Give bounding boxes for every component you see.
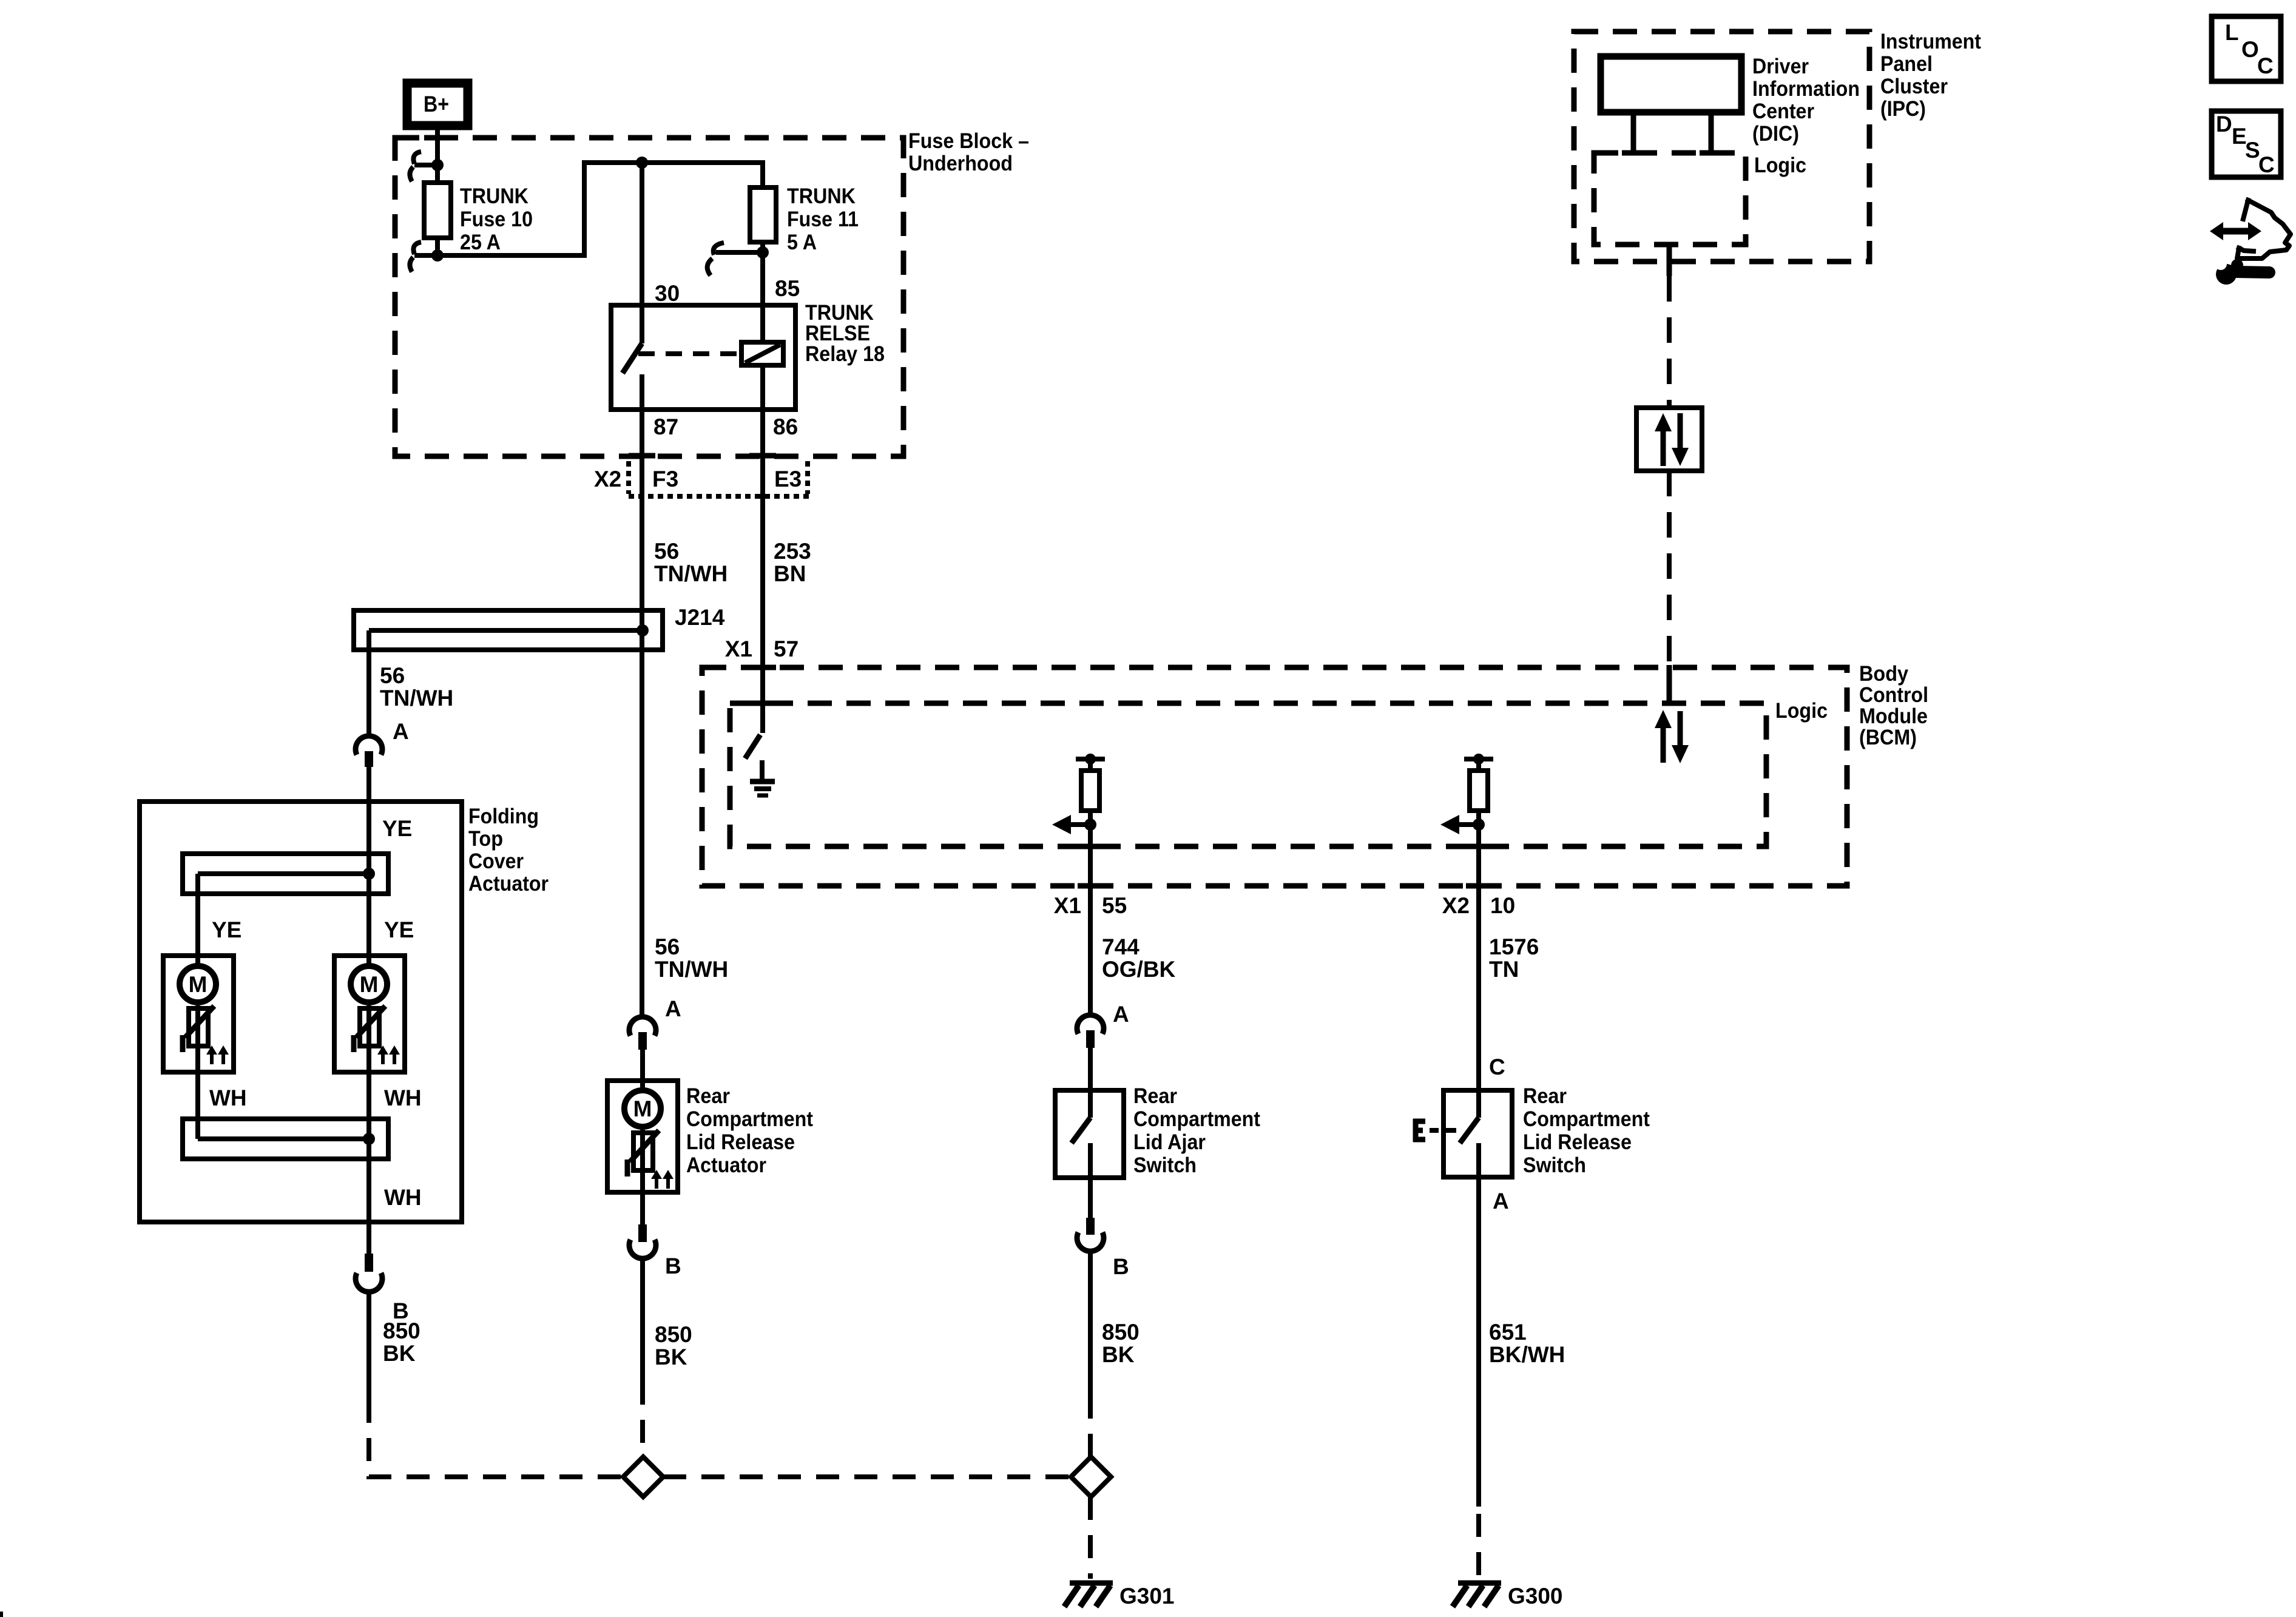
relay TRUNK RELSE Relay 18 box	[611, 305, 795, 410]
svg-text:WH: WH	[384, 1185, 422, 1210]
svg-text:(BCM): (BCM)	[1859, 726, 1917, 749]
tick crossings at fuse block bottom	[629, 453, 655, 459]
svg-text:B: B	[665, 1254, 681, 1278]
label Instrument Panel Cluster (IPC)	[1880, 30, 1981, 121]
junction node on top splice bar	[363, 868, 375, 880]
wire label 253 BN	[774, 539, 811, 586]
relay name label	[805, 301, 885, 366]
svg-text:X2: X2	[594, 467, 621, 491]
wire right branch to motor 2	[366, 874, 371, 965]
svg-text:Driver: Driver	[1752, 55, 1809, 78]
Driver Information Center display box	[1601, 56, 1741, 112]
motor 1 box	[163, 956, 234, 1072]
label Body Control Module (BCM)	[1859, 662, 1928, 749]
svg-text:D: D	[2216, 112, 2232, 137]
svg-text:TN/WH: TN/WH	[654, 561, 728, 586]
battery feed symbol B+	[407, 83, 468, 126]
relay actuation dashed link	[638, 351, 741, 356]
label Rear Compartment Lid Release Switch	[1523, 1084, 1650, 1177]
svg-text:Fuse 10: Fuse 10	[460, 208, 533, 231]
svg-text:5 A: 5 A	[787, 231, 817, 254]
wire relay 86 down to BCM	[760, 365, 765, 733]
Folding Top Cover Actuator box	[140, 802, 462, 1222]
inline connector A of folding top actuator	[356, 736, 382, 767]
serial data gateway box	[1636, 408, 1702, 471]
svg-text:A: A	[665, 996, 681, 1021]
junction node at fuse 10 input	[431, 159, 444, 171]
svg-text:Top: Top	[468, 827, 503, 851]
svg-text:TN: TN	[1489, 957, 1519, 982]
svg-text:X1: X1	[1054, 893, 1081, 918]
svg-text:Switch: Switch	[1133, 1153, 1197, 1177]
svg-text:Logic: Logic	[1775, 699, 1828, 723]
svg-text:TRUNK: TRUNK	[787, 184, 856, 208]
tick where B+ wire crosses fuse block edge	[424, 135, 451, 141]
inline connector B of folding top actuator	[356, 1254, 382, 1292]
wire B+ to Fuse 10	[435, 130, 440, 183]
BCM Logic dashed box	[730, 703, 1766, 846]
svg-text:Module: Module	[1859, 704, 1928, 728]
connector clip (fuse 11 output)	[707, 243, 763, 275]
motor 2 box	[334, 956, 405, 1072]
inline connector B of lid ajar switch	[1077, 1218, 1104, 1251]
svg-text:Body: Body	[1859, 662, 1908, 686]
BCM serial data arrows	[1655, 710, 1689, 763]
BCM input arrow (lid ajar)	[1052, 815, 1089, 834]
svg-text:A: A	[393, 719, 409, 744]
wire label 56 TN/WH (actuator feed)	[655, 934, 728, 982]
fuse TRUNK Fuse 11 5 A	[750, 187, 776, 242]
Rear Compartment Lid Ajar Switch box	[1055, 1090, 1124, 1178]
svg-text:F3: F3	[652, 467, 678, 491]
internal splice bar (bottom)	[183, 1119, 388, 1159]
svg-text:WH: WH	[384, 1085, 422, 1110]
wire fuse 10 output to bus (up and over)	[437, 163, 763, 255]
svg-text:WH: WH	[209, 1085, 247, 1110]
wire label 56 TN/WH (relay output)	[654, 539, 728, 586]
inline connector A of release actuator	[629, 1017, 656, 1050]
svg-text:Information: Information	[1752, 77, 1860, 101]
svg-text:B+: B+	[424, 92, 449, 116]
motor 2 M symbol	[351, 966, 387, 1002]
svg-text:850: 850	[655, 1322, 692, 1347]
junction node at fuse 10 output	[431, 249, 444, 262]
dashed ground wire from lid ajar switch	[1088, 1396, 1093, 1457]
wire label 651 BK/WH	[1489, 1320, 1565, 1367]
gateway arrows	[1655, 413, 1689, 466]
internal splice bar (top)	[183, 854, 388, 894]
svg-text:Folding: Folding	[468, 805, 539, 828]
svg-text:(DIC): (DIC)	[1752, 122, 1799, 146]
relay coil	[741, 342, 783, 365]
svg-text:BK: BK	[655, 1345, 687, 1369]
svg-text:BK: BK	[1102, 1342, 1135, 1367]
junction node feeding relay pin 30	[636, 157, 648, 169]
BCM internal driver switch to ground	[745, 735, 775, 795]
wire relay 87 down to actuator	[640, 410, 644, 1019]
svg-text:E: E	[2232, 124, 2247, 149]
inline connector B of release actuator	[629, 1224, 656, 1258]
harness routing icon	[2210, 200, 2291, 258]
description icon DESC	[2212, 111, 2281, 177]
dashed ground wire from folding top	[369, 1400, 623, 1477]
release actuator arrows	[651, 1170, 674, 1189]
wire 850 BK from lid ajar switch	[1088, 1249, 1093, 1396]
svg-text:Compartment: Compartment	[686, 1107, 813, 1131]
svg-text:G300: G300	[1508, 1584, 1563, 1609]
svg-text:850: 850	[383, 1318, 420, 1343]
wire node to relay pin 30	[640, 163, 644, 305]
svg-text:Lid Release: Lid Release	[686, 1130, 795, 1154]
junction node on bottom splice bar	[363, 1133, 375, 1145]
Body Control Module dashed box	[702, 667, 1847, 886]
label X1 55	[1054, 893, 1127, 918]
junction node at lid ajar input	[1084, 819, 1096, 831]
svg-text:G301: G301	[1119, 1584, 1175, 1609]
svg-text:TRUNK: TRUNK	[460, 184, 528, 208]
svg-text:BK/WH: BK/WH	[1489, 1342, 1565, 1367]
svg-text:M: M	[633, 1096, 652, 1121]
svg-text:850: 850	[1102, 1320, 1140, 1345]
junction node J214	[636, 624, 649, 636]
svg-text:Underhood: Underhood	[908, 152, 1013, 175]
svg-text:X1: X1	[725, 636, 752, 661]
svg-text:J214: J214	[675, 605, 725, 630]
svg-text:Lid Ajar: Lid Ajar	[1133, 1130, 1206, 1154]
svg-text:10: 10	[1490, 893, 1515, 918]
release actuator M symbol	[624, 1090, 661, 1127]
wire label 56 TN/WH (left branch)	[380, 663, 453, 711]
svg-text:Instrument: Instrument	[1880, 30, 1981, 53]
connector clip upper (fuse 10 input)	[410, 152, 437, 181]
label Rear Compartment Lid Release Actuator	[686, 1084, 813, 1177]
relay switch contact	[623, 305, 642, 410]
wire label 850 BK (middle)	[655, 1322, 692, 1369]
Rear Compartment Lid Release Actuator box	[607, 1081, 678, 1192]
dashed ground wire from release actuator	[640, 1382, 645, 1457]
wire 850 BK from release actuator	[640, 1257, 645, 1382]
lid ajar switch contact	[1072, 1118, 1090, 1218]
svg-text:(IPC): (IPC)	[1880, 97, 1926, 121]
wire out of folding top actuator	[366, 1139, 371, 1254]
serial data wire gateway to BCM	[1667, 471, 1672, 704]
wire label 850 BK (right)	[1102, 1320, 1140, 1367]
BCM pull-up resistor (lid ajar input)	[1076, 754, 1105, 825]
svg-text:56: 56	[380, 663, 405, 688]
svg-text:1576: 1576	[1489, 934, 1539, 959]
svg-text:87: 87	[653, 414, 678, 439]
Rear Compartment Lid Release Switch box	[1443, 1090, 1512, 1177]
svg-text:Cover: Cover	[468, 849, 524, 873]
motor 1 M symbol	[180, 966, 216, 1002]
svg-text:YE: YE	[212, 917, 241, 942]
wire into lid ajar switch	[1088, 1048, 1093, 1118]
wire fuse 10 output	[435, 238, 440, 255]
svg-text:YE: YE	[384, 917, 414, 942]
svg-text:30: 30	[655, 281, 680, 306]
label Rear Compartment Lid Ajar Switch	[1133, 1084, 1260, 1177]
svg-text:86: 86	[773, 414, 798, 439]
wire into folding top actuator	[366, 767, 371, 874]
motor 2 thermal protector	[354, 1005, 385, 1139]
DIC connection legs	[1622, 112, 1723, 153]
svg-text:Relay 18: Relay 18	[805, 342, 885, 366]
BCM input arrow (release switch)	[1440, 815, 1477, 834]
wire 850 BK from folding top	[366, 1290, 371, 1400]
wire into release actuator	[640, 1050, 645, 1089]
splice diamond (left)	[623, 1457, 663, 1497]
IPC Logic dashed box	[1594, 153, 1746, 245]
svg-text:Fuse Block –: Fuse Block –	[908, 129, 1029, 153]
wire release switch input down	[1476, 825, 1481, 1118]
svg-text:744: 744	[1102, 934, 1140, 959]
Instrument Panel Cluster dashed box	[1574, 32, 1869, 262]
dashed ground bus to right diamond	[663, 1474, 1070, 1479]
svg-text:M: M	[360, 972, 379, 997]
svg-text:25 A: 25 A	[460, 231, 501, 254]
svg-text:Switch: Switch	[1523, 1153, 1586, 1177]
svg-text:55: 55	[1102, 893, 1127, 918]
svg-text:C: C	[1489, 1055, 1505, 1079]
label Folding Top Cover Actuator	[468, 805, 549, 896]
svg-text:OG/BK: OG/BK	[1102, 957, 1176, 982]
ground symbol G300	[1453, 1583, 1501, 1607]
svg-text:Cluster: Cluster	[1880, 75, 1948, 98]
wrench icon	[2215, 258, 2269, 285]
svg-text:E3: E3	[774, 467, 802, 491]
motor 2 arrows	[377, 1045, 400, 1064]
svg-text:Compartment: Compartment	[1133, 1107, 1260, 1131]
Fuse Block - Underhood dashed box	[395, 138, 903, 456]
fuse TRUNK Fuse 10 25 A	[424, 183, 451, 238]
motor 1 thermal protector	[183, 1005, 214, 1139]
svg-text:X2: X2	[1442, 893, 1470, 918]
svg-text:Rear: Rear	[1523, 1084, 1567, 1108]
dashed wire diamond to ground G301	[1088, 1497, 1093, 1579]
svg-text:56: 56	[654, 539, 679, 564]
svg-text:M: M	[189, 972, 208, 997]
junction node at release switch input	[1473, 819, 1485, 831]
release switch contact	[1460, 1118, 1479, 1507]
label Driver Information Center (DIC)	[1752, 55, 1860, 146]
ground symbol G301	[1064, 1583, 1113, 1607]
svg-text:Actuator: Actuator	[686, 1153, 766, 1177]
Fuse Block label	[908, 129, 1029, 175]
svg-text:85: 85	[775, 276, 800, 301]
svg-text:BK: BK	[383, 1341, 416, 1366]
svg-text:BN: BN	[774, 561, 806, 586]
BCM pull-up resistor (release switch input)	[1464, 754, 1493, 825]
svg-text:Center: Center	[1752, 100, 1814, 123]
wire label 1576 TN	[1489, 934, 1539, 982]
svg-text:56: 56	[655, 934, 680, 959]
svg-text:Actuator: Actuator	[468, 872, 549, 896]
svg-text:C: C	[2258, 152, 2275, 177]
svg-text:TN/WH: TN/WH	[380, 686, 453, 711]
svg-text:253: 253	[774, 539, 811, 564]
svg-text:Control: Control	[1859, 683, 1928, 707]
svg-text:Logic: Logic	[1754, 154, 1806, 177]
tick crossings at BCM edges (X2-10)	[1466, 844, 1493, 849]
location icon LOC	[2212, 16, 2281, 81]
svg-text:Rear: Rear	[686, 1084, 730, 1108]
svg-text:57: 57	[774, 636, 799, 661]
junction node at fuse 11 output	[757, 246, 769, 258]
tick crossings at BCM edges (X1-55)	[1078, 844, 1104, 849]
serial data wire IPC to gateway	[1667, 245, 1672, 408]
splice diamond (right)	[1071, 1457, 1111, 1497]
svg-text:Fuse 11: Fuse 11	[787, 208, 859, 231]
label X2 10	[1442, 893, 1515, 918]
wire label 744 OG/BK	[1102, 934, 1176, 982]
manual actuation E symbol	[1413, 1119, 1456, 1142]
release actuator thermal protector	[627, 1130, 659, 1224]
svg-text:Lid Release: Lid Release	[1523, 1130, 1632, 1154]
svg-text:A: A	[1113, 1002, 1129, 1027]
svg-text:Rear: Rear	[1133, 1084, 1177, 1108]
svg-text:Compartment: Compartment	[1523, 1107, 1650, 1131]
svg-text:S: S	[2245, 138, 2260, 163]
svg-text:651: 651	[1489, 1320, 1527, 1345]
connector clip lower (fuse 10 output)	[410, 242, 437, 272]
underhood connector X2 dotted box	[629, 461, 811, 496]
wire left branch to motor 1	[195, 874, 200, 965]
tick crossings of wire 57 at BCM edges	[749, 665, 776, 670]
wire label 850 BK (left)	[383, 1318, 420, 1366]
svg-text:L: L	[2225, 20, 2239, 45]
motor 1 arrows	[206, 1045, 229, 1064]
svg-text:A: A	[1493, 1189, 1509, 1214]
dashed wire to ground G300	[1476, 1514, 1481, 1579]
svg-text:C: C	[2257, 53, 2274, 78]
svg-text:TN/WH: TN/WH	[655, 957, 728, 982]
inline connector A of lid ajar switch	[1077, 1015, 1104, 1048]
svg-text:Panel: Panel	[1880, 52, 1933, 76]
svg-text:YE: YE	[382, 816, 412, 841]
svg-text:O: O	[2241, 37, 2259, 62]
wire lid ajar input down	[1088, 825, 1093, 1018]
splice pack J214	[354, 610, 663, 738]
page corner mark	[0, 1612, 3, 1617]
wire fuse 11 output	[760, 242, 765, 342]
svg-text:B: B	[1113, 1254, 1129, 1279]
label X1 57 at BCM pin	[725, 636, 799, 661]
